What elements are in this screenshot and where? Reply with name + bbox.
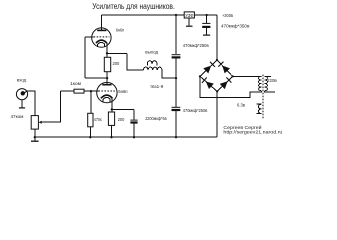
- svg-text:6н6п: 6н6п: [118, 89, 128, 94]
- svg-text:2200мкф*6в: 2200мкф*6в: [145, 116, 167, 121]
- svg-text:470мкф*250в: 470мкф*250в: [183, 108, 208, 113]
- svg-text:200: 200: [118, 117, 125, 122]
- svg-text:Усилитель для наушников.: Усилитель для наушников.: [92, 2, 175, 11]
- svg-text:470к: 470к: [94, 117, 102, 122]
- svg-text:220в: 220в: [267, 78, 278, 83]
- svg-text:47ком: 47ком: [11, 114, 24, 119]
- svg-text:http://sergeev21.narod.ru: http://sergeev21.narod.ru: [223, 130, 282, 135]
- svg-text:470мкф*250в: 470мкф*250в: [183, 43, 210, 48]
- svg-text:6.3в: 6.3в: [237, 102, 246, 107]
- svg-text:1ком: 1ком: [70, 81, 81, 86]
- svg-text:выход: выход: [145, 50, 158, 55]
- svg-text:200: 200: [113, 61, 120, 66]
- svg-text:УЗФ: УЗФ: [185, 13, 194, 18]
- svg-text:вход: вход: [17, 77, 27, 82]
- svg-text:6н6п: 6н6п: [116, 27, 125, 32]
- svg-text:+300в: +300в: [222, 13, 234, 18]
- svg-text:твз1-9: твз1-9: [150, 84, 164, 89]
- svg-text:470мкф*350в: 470мкф*350в: [221, 24, 250, 29]
